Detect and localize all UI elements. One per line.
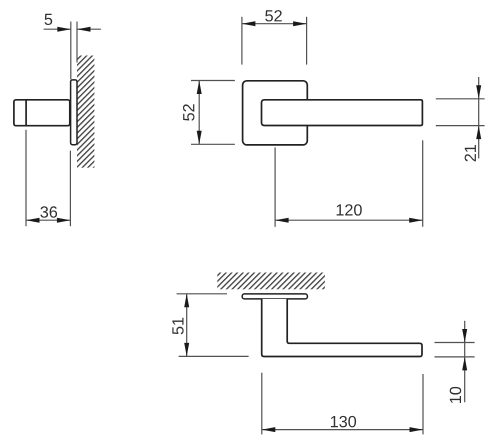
dim 52 left label rotated bbox=[183, 104, 194, 121]
dim 130 extension line right bbox=[422, 374, 424, 434]
lever handle side view body bbox=[14, 100, 70, 126]
dim 51 arrow top bbox=[184, 294, 189, 308]
dim 21 dimension line bbox=[478, 77, 480, 158]
dim 130 arrow left bbox=[262, 427, 276, 432]
dim 36 extension line right bbox=[69, 151, 71, 227]
dim 36 dimension line bbox=[26, 219, 70, 221]
dim 120 label bbox=[337, 204, 362, 215]
dim 36 arrow left bbox=[26, 218, 40, 223]
dim 5 extension line left bbox=[70, 22, 72, 80]
dim 5 label bbox=[45, 14, 53, 25]
wall hatch side view bbox=[77, 56, 94, 168]
dim 36 arrow right bbox=[57, 218, 71, 223]
dim 52 top extension line left bbox=[241, 17, 243, 65]
lever handle side view end cap line bbox=[25, 100, 27, 126]
dim 10 dimension line bbox=[464, 321, 466, 403]
dim 5 dimension line right segment bbox=[77, 28, 101, 30]
dim 51 arrow bottom bbox=[184, 343, 189, 357]
dim 5 arrow right pointing left bbox=[77, 27, 91, 32]
dim 52 top arrow right bbox=[293, 21, 307, 26]
dim 5 arrow left pointing right bbox=[57, 27, 71, 32]
dim 52 top dimension line bbox=[242, 23, 307, 25]
dim 52 top arrow left bbox=[242, 21, 256, 26]
dim 52 top extension line right bbox=[306, 17, 308, 65]
dim 52 left arrow bottom bbox=[197, 131, 202, 145]
dim 21 arrow bottom pointing up bbox=[476, 126, 481, 140]
rose plate top view bbox=[242, 294, 307, 299]
dim 36 extension line left bbox=[25, 130, 27, 226]
dim 120 arrow right bbox=[409, 218, 423, 223]
dim 21 arrow top pointing down bbox=[476, 85, 481, 99]
dim 21 label rotated bbox=[465, 145, 476, 161]
dim 130 extension line left bbox=[261, 373, 263, 435]
rose plate side view bbox=[71, 80, 77, 145]
dim 120 arrow left bbox=[275, 218, 289, 223]
dim 21 extension line top bbox=[436, 98, 485, 100]
dim 51 extension line bottom bbox=[179, 355, 249, 357]
dim 120 dimension line bbox=[275, 219, 423, 221]
dim 130 arrow right bbox=[410, 427, 424, 432]
dim 52 left extension line top bbox=[191, 80, 235, 82]
lever front view bbox=[262, 100, 423, 126]
dim 52 top label bbox=[265, 10, 282, 21]
handle top view outline bbox=[262, 299, 422, 357]
dim 10 extension line top bbox=[435, 342, 475, 344]
dim 10 extension line bottom bbox=[435, 356, 475, 358]
dim 10 label rotated bbox=[450, 387, 461, 403]
dim 130 label bbox=[331, 416, 356, 427]
dim 51 dimension line bbox=[186, 294, 188, 357]
dim 120 extension line left bbox=[274, 147, 276, 226]
dim 5 extension line right bbox=[76, 22, 78, 63]
dim 10 arrow bottom pointing up bbox=[462, 357, 467, 371]
dim 51 extension line top bbox=[177, 293, 227, 295]
dim 52 left dimension line bbox=[198, 81, 200, 145]
wall hatch top view bbox=[217, 273, 325, 290]
rose square front view bbox=[243, 81, 308, 145]
dim 120 extension line right bbox=[422, 140, 424, 227]
dim 36 label bbox=[40, 206, 57, 217]
dim 10 arrow top pointing down bbox=[462, 329, 467, 343]
dim 21 extension line bottom bbox=[436, 125, 485, 127]
dim 52 left extension line bottom bbox=[191, 143, 235, 145]
dim 130 dimension line bbox=[262, 429, 423, 431]
dim 51 label rotated bbox=[172, 318, 183, 335]
dim 52 left arrow top bbox=[197, 81, 202, 95]
dim 5 dimension line left segment bbox=[44, 28, 71, 30]
